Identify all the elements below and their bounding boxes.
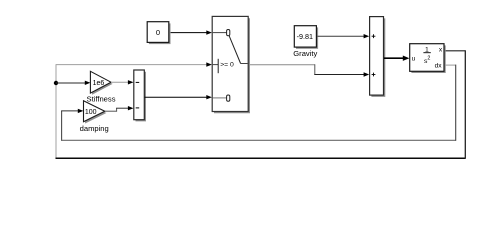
wire: Stiffness gain output to sum [111,80,134,84]
switch input 3 port marker [227,95,230,101]
switch input 1 port marker [227,30,230,36]
switch output stub [241,63,248,65]
plus sign input 2 [372,73,376,77]
svg-text:Stiffness: Stiffness [87,94,116,103]
wire: sum output to switch input 3 [145,95,212,99]
svg-text:2: 2 [427,56,430,62]
svg-text:Gravity: Gravity [293,49,317,58]
constant block 0 [147,22,170,44]
switch input 3 port stub [213,97,227,99]
switch contact diagonal [229,36,240,64]
svg-text:0: 0 [156,28,160,37]
svg-text:1e6: 1e6 [93,80,105,87]
gain block damping (100) [84,101,107,124]
wire: Gravity to sum input 1 [317,34,369,38]
switch input 1 port stub [213,32,227,34]
wire: dx-feedback into damping gain [61,109,83,141]
plus sign input 1 [372,34,376,38]
wire: damping gain output to sum (with jog) [105,106,134,112]
svg-text:-9.81: -9.81 [297,32,313,41]
node junction dot on x-feedback [54,81,58,85]
wire: sum output to integrator input (bold) [384,56,409,61]
svg-text:>= 0: >= 0 [220,62,234,69]
svg-text:u: u [412,56,416,63]
sum block (spring + damper forces) [134,70,146,121]
wire: constant 0 to switch input 1 [171,30,212,34]
constant block Gravity (-9.81) [294,26,318,49]
wire: integrator dx output feedback (right side) [446,65,456,141]
switch control threshold bar [217,59,219,73]
svg-text:100: 100 [85,109,97,116]
integrator block 1/s^2 [410,44,446,73]
switch control port stub [213,64,218,66]
wire: x-feedback left vertical [55,64,57,158]
wire: junction to Stiffness gain input [56,81,90,85]
sum block (gravity + contact force) [370,17,386,97]
switch block U1 [212,16,250,113]
svg-text:damping: damping [80,124,109,133]
wire: x-feedback bottom run [56,157,466,159]
wire: switch output to sum input 2 (with step down) [250,64,369,76]
wire: integrator x output feedback (right side) [446,50,466,159]
gain block Stiffness (1e6) [90,71,112,94]
wire: dx-feedback bottom run [61,139,456,141]
svg-text:dx: dx [435,62,443,69]
wire: x-feedback top run to switch control [56,62,212,66]
